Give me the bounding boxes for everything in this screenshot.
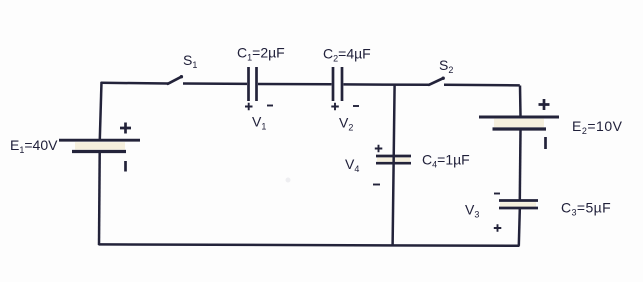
scan tint between C4 plates <box>377 158 410 162</box>
polarity - of C3 <box>494 193 500 195</box>
polarity - tick of E2 <box>544 137 547 149</box>
svg-text:E2=10V: E2=10V <box>572 118 623 136</box>
wire C1 to C2 <box>258 83 332 86</box>
wire S2 to right corner <box>444 83 520 86</box>
scan tint between E1 plates <box>75 142 125 150</box>
polarity + of E1 <box>120 123 131 134</box>
svg-text:S1: S1 <box>183 52 197 70</box>
wire right vertical middle <box>519 131 522 200</box>
svg-text:S2: S2 <box>439 57 453 75</box>
faint scan smudge <box>286 178 291 183</box>
wire bottom horizontal <box>99 244 520 245</box>
wire right vertical upper <box>519 86 522 117</box>
capacitor C3 <box>499 201 538 209</box>
svg-text:C1=2µF: C1=2µF <box>237 45 285 63</box>
svg-text:V2: V2 <box>339 115 353 133</box>
polarity - tick of E1 <box>124 161 127 172</box>
polarity - of C1 <box>267 105 273 107</box>
battery E1 <box>59 140 140 151</box>
wire right vertical lower <box>519 209 520 246</box>
switch S1 blade <box>168 75 183 84</box>
capacitor C1 <box>249 67 257 101</box>
switch S2 blade <box>429 77 445 85</box>
battery E2 <box>479 117 559 129</box>
wire top-left horizontal <box>101 82 168 85</box>
polarity - of C4 <box>373 184 380 186</box>
wire left vertical upper <box>100 82 102 140</box>
wire middle vertical branch <box>393 85 395 246</box>
polarity + of E2 <box>539 99 550 110</box>
scan tint between C3 plates <box>500 202 536 207</box>
wire S1 to C1 <box>183 82 247 85</box>
polarity + of C3 <box>494 224 502 232</box>
scan tint between E2 plates <box>494 119 544 128</box>
wire C2 to S2 <box>344 83 430 86</box>
polarity + of C4 <box>375 145 383 153</box>
polarity - of C2 <box>353 105 359 107</box>
svg-text:E1=40V: E1=40V <box>10 137 58 155</box>
svg-text:V1: V1 <box>252 114 266 132</box>
capacitor C2 <box>333 67 342 101</box>
svg-text:C4=1µF: C4=1µF <box>422 151 470 169</box>
polarity + of C1 <box>245 103 253 110</box>
svg-text:V3: V3 <box>465 202 479 220</box>
capacitor C4 <box>376 156 411 163</box>
polarity + of C2 <box>331 103 339 110</box>
svg-text:V4: V4 <box>345 156 359 174</box>
svg-text:C3=5µF: C3=5µF <box>561 200 611 218</box>
wire left vertical lower <box>98 153 101 246</box>
svg-text:C2=4µF: C2=4µF <box>323 46 371 64</box>
